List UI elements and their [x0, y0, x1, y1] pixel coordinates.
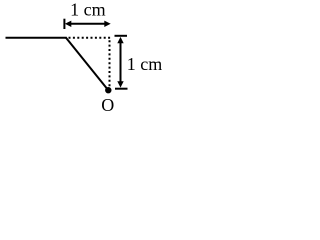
svg-text:O: O — [101, 95, 114, 115]
dotted horizontal construction line — [69, 37, 111, 39]
vertical dimension arrow (1 cm) — [115, 36, 128, 89]
horizontal dimension arrow (1 cm) — [64, 19, 110, 29]
wire: diagonal incline line to O — [66, 37, 109, 90]
point O dot — [105, 87, 111, 93]
wire: horizontal surface line — [6, 37, 67, 39]
dotted vertical construction line — [109, 40, 111, 87]
svg-text:1 cm: 1 cm — [127, 54, 163, 74]
svg-text:1 cm: 1 cm — [70, 0, 106, 19]
